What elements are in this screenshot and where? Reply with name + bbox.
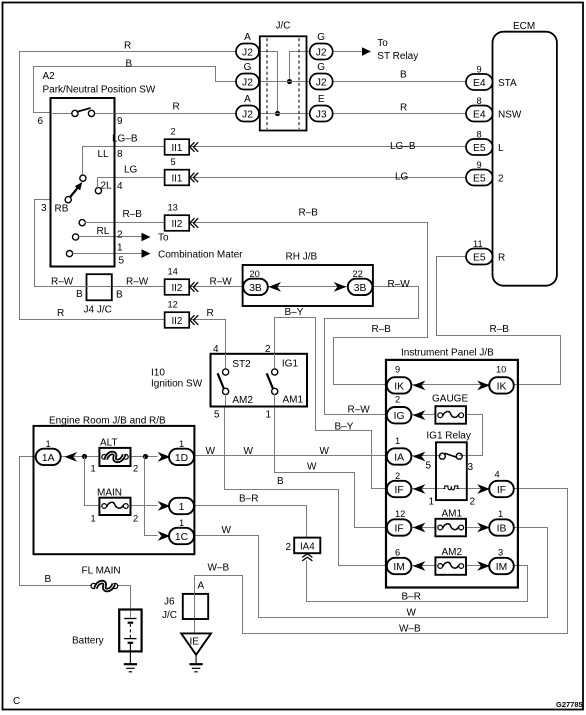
- svg-text:B: B: [400, 70, 407, 81]
- svg-text:AM2: AM2: [442, 547, 463, 558]
- IG1 contact: [267, 359, 304, 406]
- wire R-B: II2-13 to IK-9: [190, 223, 428, 385]
- svg-text:IK: IK: [394, 381, 404, 392]
- svg-text:R: R: [124, 41, 131, 52]
- fuse AM2: [435, 547, 466, 575]
- svg-text:R–W: R–W: [126, 277, 149, 288]
- arrow at 1A: [65, 452, 78, 462]
- svg-text:LL: LL: [98, 149, 110, 160]
- wire B: ignition AM2 pin5 to IM-6: [225, 406, 387, 566]
- wire A2 pin1 to arrow: [114, 236, 142, 238]
- svg-text:AM1: AM1: [283, 395, 304, 406]
- connector IF pin 12: [387, 509, 412, 536]
- connector II2 pin 12: [165, 300, 199, 328]
- svg-text:ST2: ST2: [232, 359, 251, 370]
- wire J/C middle row: [259, 81, 310, 83]
- svg-text:J2: J2: [242, 47, 253, 58]
- connector IM pin 6: [387, 548, 412, 575]
- svg-text:J2: J2: [316, 77, 327, 88]
- svg-text:2: 2: [498, 174, 504, 185]
- connector IK pin 9: [387, 365, 412, 394]
- svg-text:To: To: [377, 38, 388, 49]
- arrow at 1C: [158, 531, 171, 541]
- svg-text:13: 13: [168, 203, 178, 213]
- svg-text:W: W: [307, 462, 317, 473]
- wire IG to GAUGE fuse: [411, 414, 435, 416]
- svg-text:1: 1: [46, 439, 51, 449]
- svg-text:1: 1: [91, 464, 96, 474]
- wire B: pin6 of A2 up and right to J2-G: [34, 67, 236, 113]
- wire MAIN to oval 1: [130, 505, 158, 507]
- svg-text:1: 1: [179, 518, 184, 528]
- svg-text:2: 2: [117, 230, 123, 241]
- fuse AM1: [435, 509, 466, 537]
- svg-text:9: 9: [117, 116, 123, 127]
- RB selector lever with arrow: [55, 182, 83, 215]
- svg-text:G: G: [317, 32, 325, 43]
- svg-text:E4: E4: [473, 109, 486, 120]
- svg-text:II1: II1: [171, 143, 182, 154]
- svg-text:ST Relay: ST Relay: [377, 51, 418, 62]
- arrow into IK-9: [413, 381, 426, 391]
- svg-text:IF: IF: [395, 485, 404, 496]
- svg-text:W: W: [222, 525, 232, 536]
- wire to ST Relay: [333, 51, 363, 53]
- svg-text:STA: STA: [498, 78, 517, 89]
- svg-text:2: 2: [395, 395, 400, 405]
- svg-text:II2: II2: [171, 283, 182, 294]
- wire LG row: A2 pin4 to II1: [114, 177, 165, 179]
- svg-text:2L: 2L: [101, 181, 113, 192]
- wire RH J/B internal: [268, 286, 348, 288]
- svg-text:J4 J/C: J4 J/C: [84, 305, 112, 316]
- arrow into 3B-22: [334, 282, 347, 292]
- wire R-B row: A2 pin2 to II2: [114, 222, 165, 224]
- svg-text:2: 2: [133, 514, 138, 524]
- connector J3 pin E (bottom right): [310, 94, 333, 122]
- svg-text:2: 2: [265, 344, 271, 355]
- svg-text:R–W: R–W: [388, 279, 411, 290]
- svg-text:NSW: NSW: [498, 110, 522, 121]
- svg-text:LG: LG: [124, 165, 138, 176]
- svg-text:W–B: W–B: [399, 624, 421, 635]
- svg-text:E5: E5: [473, 173, 486, 184]
- svg-text:1C: 1C: [175, 532, 189, 543]
- svg-text:11: 11: [473, 239, 483, 249]
- contact pin 5: [66, 251, 113, 257]
- svg-text:Instrument Panel J/B: Instrument Panel J/B: [401, 348, 494, 359]
- svg-text:RH J/B: RH J/B: [286, 252, 318, 263]
- wire LG-B: II1 to ECM L: [190, 146, 466, 148]
- arrow into IF-12: [413, 523, 426, 533]
- wire J/C internal: A-top to bottom row: [259, 52, 278, 114]
- svg-text:E4: E4: [473, 78, 486, 89]
- wire B-R: engine oval 1 to IA4: [194, 506, 307, 538]
- svg-text:IG1 Relay: IG1 Relay: [426, 431, 470, 442]
- svg-text:B–R: B–R: [239, 494, 258, 505]
- svg-text:IK: IK: [497, 381, 507, 392]
- connector II1 pin 2: [165, 127, 199, 155]
- wire R-B: E5-R to IK-10: [437, 257, 561, 385]
- wire J6 to IE triangle: [194, 594, 196, 633]
- svg-text:II2: II2: [171, 316, 182, 327]
- wire LG: II1 to ECM 2: [190, 177, 466, 179]
- svg-text:12: 12: [168, 300, 178, 310]
- wire R-W: 3B-22 to IG oval: [325, 287, 419, 415]
- arrow into IA: [413, 452, 426, 462]
- svg-text:R: R: [57, 308, 64, 319]
- fusible link ALT: [91, 438, 139, 474]
- svg-text:B: B: [76, 289, 83, 300]
- svg-text:3B: 3B: [249, 283, 262, 294]
- A2 pin number labels: [38, 116, 125, 267]
- svg-text:5: 5: [426, 461, 432, 472]
- svg-text:Combination Mater: Combination Mater: [158, 250, 243, 261]
- wire B to ECM STA: [333, 81, 466, 83]
- LL contact and wire to pin 8: [80, 147, 114, 182]
- svg-text:R–W: R–W: [210, 277, 233, 288]
- svg-text:W: W: [206, 446, 216, 457]
- svg-text:5: 5: [119, 256, 125, 267]
- wire branch to MAIN: [85, 457, 99, 506]
- wire ALT to 1D arrow: [130, 456, 158, 458]
- wire R: pin9 of A2 to J2-A lower: [114, 113, 236, 115]
- svg-text:IG: IG: [394, 411, 405, 422]
- svg-text:2: 2: [133, 464, 138, 474]
- svg-text:R–B: R–B: [490, 324, 510, 335]
- svg-text:FL MAIN: FL MAIN: [82, 566, 121, 577]
- svg-text:To: To: [158, 233, 169, 244]
- junction dot: [275, 111, 280, 116]
- wire J/C internal: G-top-right to middle row: [290, 52, 310, 82]
- wire J/C bottom row: [259, 113, 310, 115]
- svg-text:G27785: G27785: [556, 700, 583, 709]
- svg-text:E: E: [318, 94, 325, 105]
- connector 1D: [169, 439, 194, 465]
- fusible link FL MAIN: [45, 566, 121, 591]
- RL contact (pin 2): [79, 220, 113, 237]
- svg-text:J/C: J/C: [162, 610, 177, 621]
- arrow into IM-6: [413, 561, 426, 571]
- connector IF pin 2: [387, 471, 412, 497]
- svg-text:10: 10: [496, 365, 506, 375]
- svg-text:1: 1: [429, 497, 435, 508]
- svg-text:C: C: [13, 696, 20, 707]
- svg-text:Park/Neutral Position SW: Park/Neutral Position SW: [43, 85, 156, 96]
- svg-text:3: 3: [498, 548, 503, 558]
- connector II2 pin 14: [165, 267, 199, 295]
- arrow into IM-3: [477, 561, 490, 571]
- wire W: 1C to IB: [194, 528, 548, 618]
- connector E4 pin 8 NSW: [466, 96, 522, 122]
- svg-text:4: 4: [117, 181, 123, 192]
- svg-text:W–B: W–B: [208, 563, 230, 574]
- svg-text:IB: IB: [497, 523, 507, 534]
- arrow into IF-4: [477, 484, 490, 494]
- ST2 contact: [218, 359, 254, 406]
- svg-text:W: W: [407, 608, 417, 619]
- wire A2 pin5 to arrow: [114, 253, 142, 255]
- wire IF-2 to relay coil: [411, 488, 444, 490]
- wire R top: left rail to J2 and down to II2-12: [20, 52, 236, 320]
- wire LG-B row: A2 pin8 to II1: [114, 146, 165, 148]
- svg-text:B–Y: B–Y: [285, 307, 304, 318]
- ignition pin labels: [213, 344, 272, 421]
- instrument panel J/B box: [386, 348, 518, 588]
- svg-text:1: 1: [117, 243, 123, 254]
- svg-text:R–B: R–B: [299, 208, 319, 219]
- 2L contact and wire to pin 4: [95, 178, 113, 194]
- svg-text:Engine Room J/B and R/B: Engine Room J/B and R/B: [49, 416, 166, 427]
- arrow into IK-10: [477, 381, 490, 391]
- connector 1: [169, 498, 194, 514]
- svg-text:J2: J2: [242, 109, 253, 120]
- wire B-Y: IG1 pin2 to IF-2: [275, 318, 388, 489]
- svg-text:LG: LG: [395, 172, 409, 183]
- ECM box: [493, 21, 557, 286]
- arrow into 3B-20: [269, 282, 282, 292]
- contact pin 1: [73, 234, 114, 240]
- IG1 Relay box: [426, 431, 470, 501]
- svg-text:W: W: [320, 446, 330, 457]
- arrow into IG: [413, 410, 426, 420]
- wire branch to 1C: [145, 457, 158, 536]
- svg-text:2: 2: [470, 497, 476, 508]
- svg-text:R–B: R–B: [372, 324, 392, 335]
- connector E4 pin 9 STA: [466, 65, 517, 91]
- svg-text:6: 6: [395, 548, 400, 558]
- connector II2 pin 13: [165, 203, 199, 231]
- svg-text:RL: RL: [97, 226, 110, 237]
- connector 1C: [169, 518, 194, 544]
- svg-text:II2: II2: [171, 219, 182, 230]
- connector J2 pin A (bottom left): [236, 94, 259, 122]
- svg-text:B: B: [116, 290, 123, 301]
- svg-text:J/C: J/C: [276, 21, 291, 32]
- wire GAUGE to relay pin3: [459, 415, 483, 456]
- arrow into IF-2: [413, 484, 426, 494]
- svg-text:LG–B: LG–B: [112, 134, 138, 145]
- connector J2 pin G (mid right): [310, 62, 333, 90]
- wire R-W: II2-14 to 3B-20: [190, 286, 243, 288]
- arrow at 1D: [158, 452, 171, 462]
- fuse GAUGE: [432, 394, 468, 424]
- svg-text:IA: IA: [394, 452, 404, 463]
- wire relay coil to IF-4: [456, 488, 489, 490]
- svg-text:LG–B: LG–B: [390, 141, 416, 152]
- svg-text:3B: 3B: [354, 283, 367, 294]
- svg-text:9: 9: [477, 160, 482, 170]
- svg-text:AM1: AM1: [442, 509, 463, 520]
- svg-text:1: 1: [179, 439, 184, 449]
- wire R: II2-12 to ST2 pin4: [190, 320, 226, 354]
- arrow to ST Relay: [362, 38, 418, 62]
- svg-text:E5: E5: [473, 252, 486, 263]
- connector IA pin 1: [387, 436, 412, 465]
- svg-text:1: 1: [395, 436, 400, 446]
- wire AM1 to IB: [466, 527, 489, 529]
- junction connector J4 J/C: [76, 274, 123, 315]
- svg-text:1: 1: [91, 514, 96, 524]
- IE ground triangle: [181, 633, 211, 663]
- svg-text:R–W: R–W: [348, 405, 371, 416]
- fusible link MAIN: [91, 488, 139, 524]
- junction connector J6 J/C: [162, 581, 208, 622]
- wire IA to relay pin5: [411, 455, 442, 457]
- wire R-W: J4 to II2-14: [112, 286, 165, 288]
- svg-text:9: 9: [395, 365, 400, 375]
- svg-text:1: 1: [266, 410, 272, 421]
- svg-text:4: 4: [495, 470, 500, 480]
- wire engine J/B: 1A arrow to ALT: [61, 456, 99, 458]
- svg-text:4: 4: [213, 344, 219, 355]
- ground below IE: [190, 664, 203, 672]
- connector II1 pin 5: [165, 157, 199, 185]
- svg-text:IA4: IA4: [300, 541, 315, 552]
- svg-text:2: 2: [171, 127, 176, 137]
- wire IF-12 to AM1 fuse: [411, 527, 435, 529]
- wire FL MAIN to battery: [118, 586, 131, 618]
- wire IM-6 to AM2 fuse: [411, 565, 435, 567]
- connector J2 pin A (top left): [236, 32, 259, 60]
- svg-text:8: 8: [117, 149, 123, 160]
- svg-text:R: R: [207, 308, 214, 319]
- svg-text:9: 9: [477, 65, 482, 75]
- svg-text:A: A: [198, 581, 205, 592]
- svg-text:2: 2: [395, 471, 400, 481]
- A2 switch box: [43, 71, 156, 267]
- svg-text:A: A: [244, 94, 251, 105]
- wire B: 1A to FL MAIN and battery: [20, 457, 91, 586]
- connector IF pin 4: [489, 470, 514, 498]
- switch contact circles (pins 6-9): [51, 108, 115, 117]
- wire AM2 to IM-3: [466, 565, 489, 567]
- svg-text:14: 14: [168, 267, 178, 277]
- wire stubs inside ignition box: [225, 354, 227, 369]
- ignition switch box: [151, 354, 307, 407]
- svg-text:B: B: [277, 476, 284, 487]
- wire W: ignition AM1 pin1 to IF-12: [275, 406, 387, 528]
- relay contact: [426, 453, 474, 473]
- wire B-R: IA4 to IM-3: [307, 561, 528, 602]
- battery: [72, 610, 142, 664]
- svg-text:1D: 1D: [175, 453, 188, 464]
- svg-text:MAIN: MAIN: [97, 488, 122, 499]
- arrow into IB: [477, 523, 490, 533]
- svg-text:IF: IF: [497, 485, 506, 496]
- svg-text:2: 2: [286, 542, 292, 553]
- svg-text:12: 12: [395, 509, 405, 519]
- connector IB pin 1: [489, 509, 514, 536]
- svg-text:IM: IM: [393, 562, 404, 573]
- connector E5 pin 11 R: [466, 239, 505, 265]
- connector J2 pin G (mid left): [236, 62, 259, 90]
- wire W: 1D to IA: [194, 455, 388, 457]
- connector IM pin 3: [489, 548, 514, 575]
- svg-text:R–W: R–W: [51, 277, 74, 288]
- junction dot: [287, 79, 292, 84]
- svg-text:B–Y: B–Y: [335, 422, 354, 433]
- svg-text:J2: J2: [242, 77, 253, 88]
- connector 1A: [36, 439, 61, 465]
- svg-text:G: G: [317, 62, 325, 73]
- connector E5 pin 8 L: [466, 130, 504, 156]
- connector IG pin 2: [387, 395, 412, 424]
- svg-text:E5: E5: [473, 143, 486, 154]
- svg-text:II1: II1: [171, 173, 182, 184]
- svg-text:R: R: [173, 102, 180, 113]
- svg-text:5: 5: [171, 157, 176, 167]
- svg-text:J2: J2: [316, 47, 327, 58]
- RH J/B box: [243, 252, 373, 307]
- connector IK pin 10: [489, 365, 514, 394]
- arrow at oval 1: [158, 501, 171, 511]
- engine room J/B box: [34, 416, 195, 555]
- svg-text:R: R: [400, 103, 407, 114]
- svg-text:A2: A2: [43, 71, 56, 82]
- svg-text:GAUGE: GAUGE: [432, 394, 468, 405]
- svg-text:R: R: [498, 253, 505, 264]
- junction connector J/C box: [260, 21, 307, 131]
- svg-text:R–B: R–B: [123, 209, 143, 220]
- svg-text:ECM: ECM: [513, 21, 535, 32]
- relay coil: [429, 486, 476, 508]
- wire IK internal: [411, 384, 489, 386]
- junction dot: [82, 454, 87, 459]
- svg-text:22: 22: [353, 269, 363, 279]
- connector IA4: [286, 538, 321, 561]
- arrows To Combination Mater: [142, 233, 244, 261]
- wire R to ECM NSW: [333, 113, 466, 115]
- svg-text:20: 20: [250, 269, 260, 279]
- svg-text:8: 8: [477, 96, 482, 106]
- svg-text:1: 1: [498, 509, 503, 519]
- svg-text:L: L: [498, 143, 504, 154]
- svg-text:IE: IE: [190, 637, 200, 648]
- svg-text:1A: 1A: [42, 453, 55, 464]
- svg-text:G: G: [244, 62, 252, 73]
- svg-text:B: B: [45, 574, 52, 585]
- svg-text:IF: IF: [395, 523, 404, 534]
- svg-text:AM2: AM2: [232, 395, 253, 406]
- svg-text:J6: J6: [164, 597, 175, 608]
- junction dot: [143, 454, 148, 459]
- svg-text:J3: J3: [316, 109, 327, 120]
- ground below battery: [124, 664, 137, 672]
- svg-text:I10: I10: [151, 368, 165, 379]
- svg-text:6: 6: [38, 116, 44, 127]
- wire W-B: IF-4 to J6 J/C: [195, 489, 568, 634]
- svg-text:3: 3: [41, 203, 47, 214]
- svg-text:1: 1: [179, 502, 185, 513]
- connector J2 pin G (top right): [310, 32, 333, 60]
- svg-text:RB: RB: [55, 204, 69, 215]
- connector 3B pin 20: [243, 269, 268, 295]
- svg-text:IM: IM: [496, 562, 507, 573]
- svg-text:A: A: [244, 32, 251, 43]
- wire R-W: A2 pin3 to J4 J/C: [35, 200, 86, 287]
- svg-text:Ignition SW: Ignition SW: [151, 379, 203, 390]
- svg-text:B–R: B–R: [402, 592, 421, 603]
- svg-text:3: 3: [468, 462, 474, 473]
- connector E5 pin 9 2: [466, 160, 504, 186]
- svg-text:W: W: [244, 446, 254, 457]
- svg-text:ALT: ALT: [100, 438, 118, 449]
- svg-text:8: 8: [477, 130, 482, 140]
- svg-text:B: B: [126, 59, 133, 70]
- svg-text:IG1: IG1: [282, 359, 299, 370]
- svg-text:Battery: Battery: [72, 636, 104, 647]
